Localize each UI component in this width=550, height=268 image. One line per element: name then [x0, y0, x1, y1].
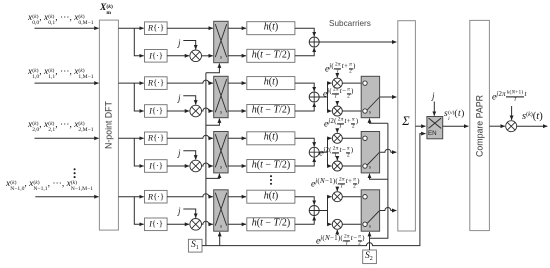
wire DFT output to R{.} branch 3	[118, 137, 143, 139]
wire split down to bottom exp multiplier branch 2	[328, 97, 332, 111]
wire S1 trunk vertical	[205, 73, 207, 246]
wire S1 tap into crossing box 1	[206, 64, 220, 73]
block I{.} imaginary part branch 3	[145, 160, 168, 173]
label input vector branch 4	[6, 180, 93, 195]
label s on crossing box branch 2	[220, 111, 222, 117]
wire crossing box out top to h(t) branch 1	[228, 27, 246, 29]
wire h(t) to adder branch 2	[295, 83, 314, 91]
label exp bottom branch 3	[319, 147, 353, 161]
wire crossing box out bottom to h(t-T/2) branch 3	[228, 165, 246, 167]
label s i (v)(t)	[444, 110, 465, 125]
summation sigma block	[398, 21, 416, 231]
selector switch box S2-controlled branch 2	[361, 76, 379, 117]
Compare PAPR block	[470, 20, 490, 230]
label exp bottom branch 2	[323, 88, 354, 102]
label h(t) branch 2	[264, 78, 278, 88]
filter block h(t-T/2) branch 2	[247, 105, 295, 118]
arrow exp label bottom into multiplier branch 3	[336, 159, 338, 161]
wire adder output stem branch 3	[319, 151, 327, 153]
wire I output to multiplier branch 4	[167, 223, 189, 225]
label S2	[365, 252, 373, 262]
wire R output to crossing box branch 4	[167, 194, 213, 197]
wire I output to multiplier branch 1	[167, 55, 189, 57]
label I{.} branch 1	[149, 51, 163, 60]
multiplier exp bottom branch 2	[332, 106, 342, 116]
wire R output to crossing box branch 3	[167, 135, 213, 138]
label Compare PAPR	[475, 95, 484, 157]
crossing switch box S1-controlled branch 3	[214, 132, 228, 173]
label I{.} branch 4	[149, 220, 163, 229]
label h(t) branch 4	[264, 191, 278, 201]
crossing switch box S1-controlled branch 1	[214, 21, 228, 62]
wire multiplier to crossing box branch 2	[202, 108, 213, 111]
wire R output to crossing box branch 2	[167, 80, 213, 83]
selector switch box S2-controlled branch 3	[361, 132, 379, 173]
block I{.} imaginary part branch 4	[145, 218, 168, 231]
label j branch 2	[178, 94, 181, 103]
wire h(t) to adder branch 4	[295, 197, 314, 205]
wire crossing box out bottom to h(t-T/2) branch 4	[228, 223, 246, 225]
label j branch 4	[178, 207, 181, 216]
label j branch 3	[178, 149, 181, 158]
wire crossing box out top to h(t) branch 4	[228, 196, 246, 198]
wire crossing box out top to h(t) branch 2	[228, 82, 246, 84]
wire exp multiplier top to switch port branch 3	[342, 137, 363, 139]
wire input arrow branch 1 into DFT	[35, 27, 99, 29]
block I{.} imaginary part branch 2	[145, 105, 168, 118]
block R{.} real part branch 4	[145, 190, 168, 203]
wire I output to multiplier branch 3	[167, 165, 189, 167]
label h(t) branch 1	[264, 23, 278, 33]
adder branch 4	[309, 206, 319, 216]
wire multiplier to crossing box branch 4	[202, 221, 213, 224]
wire h(t-T/2) to adder branch 4	[295, 216, 314, 224]
wire input arrow branch 2 into DFT	[35, 82, 99, 84]
wire Compare PAPR to final multiplier	[489, 125, 505, 127]
wire exp multiplier bottom to switch port branch 4	[342, 223, 363, 225]
wire adder output stem branch 2	[319, 96, 327, 98]
wire switch output to summation branch 4	[380, 208, 397, 211]
wire input arrow branch 3 into DFT	[35, 137, 99, 139]
wire split down to I{.} branch 4	[134, 197, 143, 225]
filter block h(t) branch 3	[247, 132, 295, 145]
vertical ellipsis left of DFT	[74, 168, 76, 178]
adder branch 3	[309, 147, 319, 157]
N-point DFT block	[99, 20, 118, 230]
label h(t-T/2) branch 1	[252, 50, 290, 60]
arrow exp carrier label into final multiplier	[511, 106, 513, 120]
wire adder branch 1 to summation	[319, 41, 396, 43]
wire j into multiplier branch 3	[183, 151, 195, 160]
wire crossing box out bottom to h(t-T/2) branch 1	[228, 55, 246, 57]
label j branch 1	[178, 39, 181, 48]
wire input arrow branch 4 into DFT	[35, 196, 98, 198]
multiplier (x j) branch 3	[190, 160, 202, 172]
block R{.} real part branch 3	[145, 132, 168, 145]
crossing switch box S1-controlled branch 2	[214, 76, 228, 117]
wire S2 arrow into switch box 4	[369, 232, 371, 238]
wire DFT output to R{.} branch 4	[118, 196, 143, 198]
multiplier exp top branch 2	[332, 78, 342, 88]
filter block h(t-T/2) branch 4	[247, 218, 295, 231]
multiplier exp bottom branch 4	[332, 219, 342, 229]
wire h(t) to adder branch 3	[295, 138, 314, 146]
filter block h(t) branch 2	[247, 77, 295, 90]
arrow exp label bottom into multiplier branch 2	[336, 104, 338, 106]
adder branch 2	[309, 92, 319, 102]
wire multiplier to crossing box branch 1	[202, 55, 213, 57]
label h(t-T/2) branch 3	[252, 161, 290, 171]
wire split down to I{.} branch 1	[134, 28, 143, 56]
label s(k)(t) output	[522, 112, 543, 123]
arrow j into EN box	[433, 102, 435, 116]
wire EN output to Compare PAPR	[443, 125, 469, 127]
wire exp multiplier bottom to switch port branch 2	[342, 110, 363, 112]
wire exp multiplier top to switch port branch 2	[342, 82, 363, 84]
multiplier exp bottom branch 3	[332, 161, 342, 171]
label N-point DFT	[104, 101, 113, 149]
multiplier (x j) branch 4	[190, 219, 202, 231]
wire split up to top exp multiplier branch 2	[328, 83, 332, 97]
wire j into multiplier branch 4	[183, 209, 195, 218]
wire split down to bottom exp multiplier branch 3	[328, 152, 332, 166]
S1 control source box	[188, 239, 202, 252]
wire S1 tap into crossing box 4	[219, 232, 221, 246]
block I{.} imaginary part branch 1	[145, 50, 168, 63]
wire split down to bottom exp multiplier branch 4	[328, 211, 332, 225]
wire h(t) to adder branch 1	[295, 28, 314, 36]
arrow exp label top into multiplier branch 4	[336, 190, 338, 192]
wire j into multiplier branch 1	[183, 41, 195, 50]
EN gated multiplier box	[427, 117, 443, 139]
multiplier exp top branch 3	[332, 133, 342, 143]
wire S1 tap into crossing box 2	[206, 119, 220, 126]
wire R output to crossing box branch 1	[167, 27, 213, 29]
selector switch box S2-controlled branch 4	[361, 190, 379, 231]
wire switch output to summation branch 2	[380, 96, 397, 98]
multiplier exp top branch 4	[332, 192, 342, 202]
wire split up to top exp multiplier branch 4	[328, 197, 332, 211]
wire crossing box out top to h(t) branch 3	[228, 137, 246, 139]
filter block h(t) branch 4	[247, 190, 295, 203]
arrow exp label top into multiplier branch 3	[336, 131, 338, 133]
label s on crossing box branch 1	[220, 56, 222, 62]
label s on switch box branch 2	[369, 111, 371, 117]
block R{.} real part branch 2	[145, 77, 168, 90]
wire h(t-T/2) to adder branch 1	[295, 48, 314, 56]
label s on crossing box branch 3	[220, 166, 222, 172]
wire crossing box out bottom to h(t-T/2) branch 2	[228, 110, 246, 112]
arrow exp label bottom up into multiplier branch 4	[336, 230, 338, 235]
label EN	[428, 131, 437, 137]
label exp top branch 2	[325, 63, 356, 77]
wire bottom control from S1 to EN	[202, 134, 426, 246]
label exp top branch 3	[324, 118, 358, 132]
wire switch output to summation branch 3	[380, 149, 397, 152]
filter block h(t) branch 1	[247, 22, 295, 35]
wire DFT output to R{.} branch 2	[118, 82, 143, 84]
wire I output to multiplier branch 2	[167, 110, 189, 112]
label s on switch box branch 3	[369, 166, 371, 172]
wire exp multiplier top to switch port branch 4	[342, 196, 363, 198]
label Subcarriers	[329, 20, 371, 28]
label sigma	[402, 115, 409, 128]
wire h(t-T/2) to adder branch 3	[295, 158, 314, 166]
label h(t-T/2) branch 2	[252, 106, 290, 116]
label S1	[191, 241, 199, 251]
multiplier (x j) branch 2	[190, 105, 202, 117]
wire split down to I{.} branch 3	[134, 138, 143, 166]
label exp bottom branch 4	[316, 235, 365, 249]
label I{.} branch 3	[149, 161, 163, 170]
wire DFT output to R{.} branch 1	[118, 27, 143, 29]
label I{.} branch 2	[149, 106, 163, 115]
wire exp multiplier bottom to switch port branch 3	[342, 165, 363, 167]
label s on crossing box branch 4	[220, 224, 222, 230]
label R{.} branch 3	[148, 134, 164, 143]
label Xm(k) above DFT	[100, 4, 113, 19]
label h(t) branch 3	[264, 133, 278, 143]
wire multiplier to crossing box branch 3	[202, 163, 213, 166]
label s on switch box branch 4	[369, 224, 371, 230]
filter block h(t-T/2) branch 3	[247, 160, 295, 173]
label exp top branch 4	[311, 178, 360, 192]
label R{.} branch 4	[148, 192, 164, 201]
label R{.} branch 1	[148, 24, 164, 33]
final multiplier upconversion	[506, 121, 517, 132]
wire S2 tap into switch box 3	[370, 174, 388, 180]
label input vector branch 2	[28, 68, 94, 83]
label h(t-T/2) branch 4	[252, 219, 290, 229]
label input vector branch 3	[28, 121, 94, 136]
wire split down to I{.} branch 2	[134, 83, 143, 111]
crossing switch box S1-controlled branch 4	[214, 190, 228, 231]
wire split up to top exp multiplier branch 3	[328, 138, 332, 152]
label j above EN	[432, 92, 435, 101]
arrow exp label top into multiplier branch 2	[336, 76, 338, 78]
wire S2 riser	[370, 123, 388, 250]
wire S2 tap into switch box 2	[370, 119, 388, 124]
wire h(t-T/2) to adder branch 2	[295, 103, 314, 111]
S2 control source box	[363, 250, 377, 264]
multiplier (x j) branch 1	[190, 50, 202, 62]
label R{.} branch 2	[148, 79, 164, 88]
label input vector branch 1	[28, 14, 94, 29]
block R{.} real part branch 1	[145, 22, 168, 35]
wire j into multiplier branch 2	[183, 96, 195, 105]
adder branch 1	[309, 37, 319, 47]
wire sigma to EN box	[415, 125, 425, 127]
wire adder output stem branch 4	[319, 210, 327, 212]
wire S1 tap into crossing box 3	[206, 174, 220, 179]
label exp carrier	[492, 91, 527, 105]
filter block h(t-T/2) branch 1	[247, 49, 295, 62]
wire final output s(k)(t)	[517, 125, 548, 127]
vertical ellipsis middle column	[270, 175, 272, 185]
